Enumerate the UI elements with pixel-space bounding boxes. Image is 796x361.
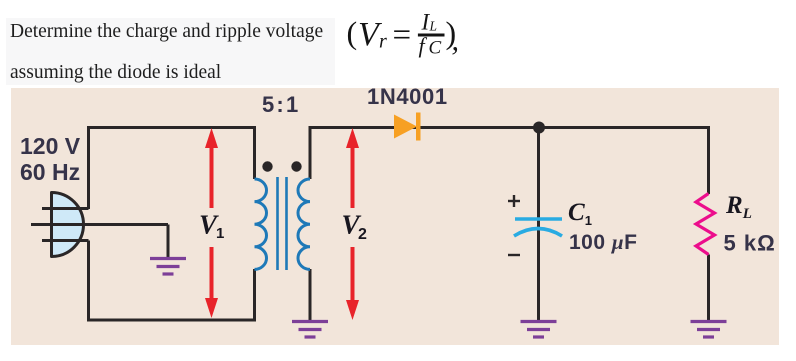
arrow V2	[346, 128, 359, 320]
polarity dot secondary	[291, 161, 301, 171]
ground G3 (capacitor ground)	[521, 322, 557, 338]
svg-text:100 μF: 100 μF	[569, 230, 637, 254]
wire: capacitor branch (node A down to ground)	[537, 128, 540, 321]
wire: ground pin drop	[167, 225, 170, 258]
svg-text:5:1: 5:1	[262, 92, 300, 117]
svg-text:=: =	[393, 18, 412, 54]
svg-text:120 V: 120 V	[20, 133, 81, 159]
wire: resistor bottom to ground	[707, 255, 710, 321]
svg-text:,: ,	[452, 24, 460, 57]
svg-text:60 Hz: 60 Hz	[20, 159, 80, 185]
wire: secondary bottom to ground	[309, 269, 312, 321]
arrow V1	[205, 128, 218, 318]
capacitor C1 curved plate	[514, 229, 562, 237]
wire: secondary top to diode to node A and resistor branch	[310, 128, 709, 195]
AC plug P1 body	[52, 193, 84, 257]
formula (Vr = IL/fC),	[347, 10, 460, 59]
transformer T1 primary coil	[255, 179, 267, 269]
svg-text:f: f	[419, 33, 428, 58]
ground G4 (resistor ground)	[691, 322, 727, 338]
diode D1 body	[394, 115, 417, 139]
polarity dot primary	[262, 161, 272, 171]
svg-text:C: C	[429, 38, 442, 59]
svg-text:L: L	[429, 19, 438, 34]
circuit background panel	[11, 88, 779, 345]
svg-text:5 kΩ: 5 kΩ	[724, 231, 776, 256]
ground G2 (secondary ground)	[292, 322, 328, 338]
capacitor minus sign	[508, 254, 520, 256]
svg-text:r: r	[379, 31, 387, 53]
diode D1 cathode bar	[416, 113, 421, 141]
plug prong bottom	[42, 239, 89, 242]
ground G1 (primary ground)	[150, 259, 186, 275]
capacitor plus sign	[508, 195, 520, 207]
capacitor C1 top plate	[515, 217, 562, 221]
plug prong top	[42, 207, 89, 210]
transformer T1 core	[278, 177, 287, 270]
node A junction dot	[533, 122, 545, 134]
transformer T1 secondary coil	[298, 179, 310, 269]
wire: bottom rail left (plug to primary winding)	[89, 241, 255, 321]
question text line 1	[10, 21, 323, 43]
plug prong middle (ground pin)	[31, 223, 168, 226]
svg-text:1N4001: 1N4001	[367, 84, 448, 109]
svg-text:(: (	[347, 15, 358, 51]
wire: top rail left (plug to primary winding)	[89, 128, 255, 210]
question text line 2	[10, 62, 221, 84]
question text panel	[6, 18, 335, 85]
resistor RL zigzag	[696, 194, 715, 255]
